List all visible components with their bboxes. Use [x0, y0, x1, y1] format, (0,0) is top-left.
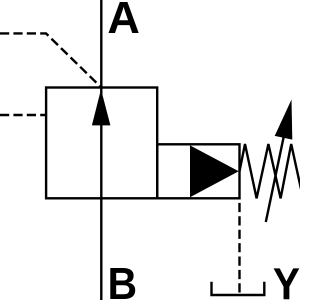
poppet triangle — [190, 145, 239, 197]
flow arrow in valve body — [92, 89, 111, 125]
label B — [110, 268, 135, 299]
label A — [109, 2, 139, 33]
poppet box — [157, 144, 239, 198]
pilot line (dashed, left middle) — [0, 114, 46, 116]
spring — [240, 144, 302, 198]
valve body envelope — [46, 88, 157, 199]
pilot line X (dashed, to top-left) — [0, 33, 101, 87]
adjustment arrowhead — [275, 100, 293, 140]
drain line Y (dashed) — [238, 198, 240, 293]
tank symbol — [212, 282, 265, 295]
wire port A to port B — [100, 0, 102, 300]
adjustment arrow shaft — [266, 133, 285, 222]
label Y — [274, 268, 300, 299]
